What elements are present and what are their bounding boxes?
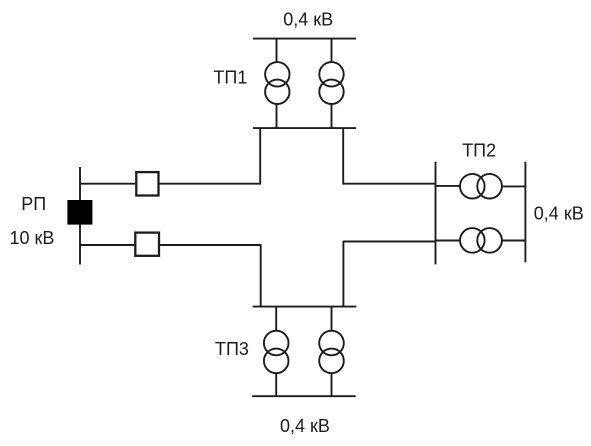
transformer ТП1-T1 (two-winding) bbox=[265, 62, 289, 104]
busbar ТП3 0.4kV (bottom) bbox=[252, 395, 356, 397]
busbar ТП1 0.4kV (top) bbox=[253, 38, 356, 40]
wire: ТП2 lower feeder horizontal bbox=[343, 241, 435, 243]
svg-text:ТП3: ТП3 bbox=[215, 339, 249, 359]
wire: ТП1 right transformer to lower busbar bbox=[331, 104, 333, 128]
transformer ТП1-T2 (two-winding) bbox=[319, 62, 343, 104]
wire: lower feeder riser down to ТП3 busbar bbox=[260, 245, 262, 307]
switch Q1 (upper feeder) bbox=[136, 172, 158, 195]
transformer ТП2-T1 (two-winding) bbox=[460, 174, 502, 199]
transformer ТП3-T2 (two-winding) bbox=[319, 331, 344, 374]
wire: ТП3 left transformer to bottom busbar bbox=[275, 373, 277, 396]
switch Q2 (lower feeder) bbox=[135, 233, 159, 256]
svg-text:ТП1: ТП1 bbox=[213, 67, 247, 87]
wire: ТП2 left busbar to top transformer bbox=[436, 185, 461, 187]
svg-text:10 кВ: 10 кВ bbox=[10, 228, 55, 248]
svg-text:0,4 кВ: 0,4 кВ bbox=[280, 416, 330, 436]
busbar ТП3 10kV (upper) bbox=[253, 306, 357, 308]
wire: ТП1 lower busbar down-left riser bbox=[259, 128, 261, 184]
wire: switch to ТП1 riser (upper feeder) bbox=[160, 183, 262, 185]
busbar ТП2 10kV (left vertical) bbox=[435, 162, 437, 265]
svg-text:РП: РП bbox=[21, 194, 46, 214]
wire: ТП2 lower feeder riser down to ТП3 busbar bbox=[342, 241, 344, 307]
wire: ТП2 left busbar to bottom transformer bbox=[436, 240, 461, 242]
busbar РП 10kV (vertical) bbox=[79, 167, 81, 265]
transformer ТП3-T1 (two-winding) bbox=[264, 331, 289, 374]
wire: ТП3 upper busbar to right transformer bbox=[331, 307, 333, 331]
wire: ТП3 right transformer to bottom busbar bbox=[331, 373, 333, 396]
wire: ТП1 left transformer to lower busbar bbox=[276, 104, 278, 128]
wire: ТП1 right transformer to top busbar bbox=[331, 39, 333, 63]
РП block (filled square) bbox=[67, 200, 92, 225]
svg-text:ТП2: ТП2 bbox=[462, 141, 496, 161]
busbar ТП2 0.4kV (right vertical) bbox=[524, 162, 526, 263]
transformer ТП2-T2 (two-winding) bbox=[460, 228, 502, 253]
busbar ТП1 10kV (lower) bbox=[253, 127, 356, 129]
wire: ТП1 left transformer to top busbar bbox=[276, 39, 278, 63]
wire: riser to ТП2 left busbar (upper feeder) bbox=[342, 183, 435, 185]
wire: ТП3 upper busbar to left transformer bbox=[275, 307, 277, 331]
wire: ТП1 lower busbar down-right riser bbox=[342, 128, 344, 184]
wire: switch to ТП3 riser (lower feeder) bbox=[160, 244, 262, 246]
svg-text:0,4 кВ: 0,4 кВ bbox=[283, 10, 333, 30]
wire: ТП2 top transformer to right busbar bbox=[502, 185, 526, 187]
wire: РП to switch (lower feeder) bbox=[80, 244, 134, 246]
wire: ТП2 bottom transformer to right busbar bbox=[502, 240, 526, 242]
svg-text:0,4 кВ: 0,4 кВ bbox=[534, 204, 584, 224]
wire: РП to switch (upper feeder) bbox=[80, 183, 135, 185]
